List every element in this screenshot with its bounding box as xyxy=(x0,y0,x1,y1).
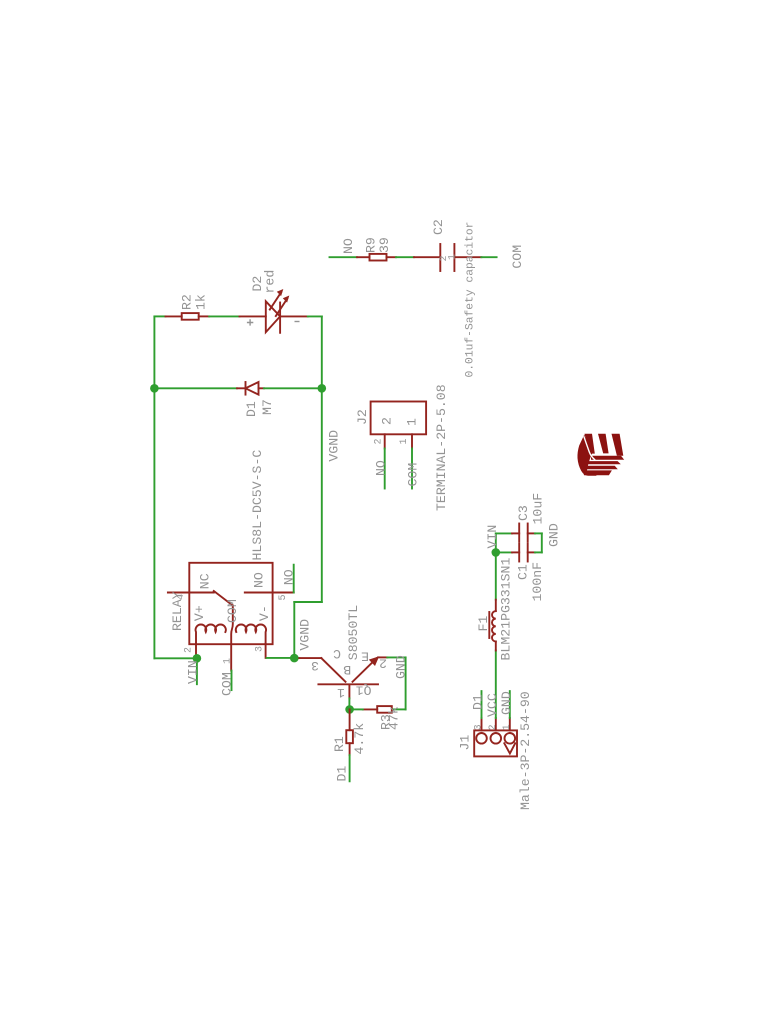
svg-text:D1: D1 xyxy=(471,694,486,710)
svg-text:COM: COM xyxy=(510,245,525,269)
svg-text:1: 1 xyxy=(448,254,459,260)
svg-text:C: C xyxy=(333,646,341,661)
svg-text:VCC: VCC xyxy=(485,693,500,717)
svg-text:2: 2 xyxy=(379,655,387,670)
svg-text:VGND: VGND xyxy=(298,619,313,651)
svg-text:Q1: Q1 xyxy=(356,682,372,697)
svg-text:F1: F1 xyxy=(476,616,491,632)
svg-text:J1: J1 xyxy=(458,735,473,751)
svg-text:1: 1 xyxy=(399,438,410,444)
svg-text:B: B xyxy=(343,662,351,677)
svg-text:S8050TL: S8050TL xyxy=(346,605,361,660)
svg-text:5: 5 xyxy=(278,594,289,600)
svg-text:1: 1 xyxy=(223,658,234,664)
svg-text:BLM21PG331SN1: BLM21PG331SN1 xyxy=(499,558,514,661)
svg-text:VIN: VIN xyxy=(485,525,500,549)
svg-text:100nF: 100nF xyxy=(530,562,545,602)
svg-text:COM: COM xyxy=(220,672,235,696)
svg-text:D1: D1 xyxy=(244,401,259,417)
svg-text:1: 1 xyxy=(405,418,420,426)
svg-text:R1: R1 xyxy=(332,736,347,752)
svg-text:0.01uf-Safety capacitor: 0.01uf-Safety capacitor xyxy=(465,222,477,378)
svg-text:NO: NO xyxy=(341,238,356,254)
svg-text:HLS8L-DC5V-S-C: HLS8L-DC5V-S-C xyxy=(250,450,265,561)
svg-text:COM: COM xyxy=(406,463,421,487)
svg-text:GND: GND xyxy=(547,523,562,547)
svg-text:C1: C1 xyxy=(516,564,531,580)
svg-text:1: 1 xyxy=(502,724,513,730)
svg-text:39: 39 xyxy=(377,237,392,253)
svg-text:4: 4 xyxy=(176,594,187,600)
svg-text:GND: GND xyxy=(394,655,409,679)
svg-text:NO: NO xyxy=(282,569,297,585)
svg-text:red: red xyxy=(263,270,278,294)
svg-text:J2: J2 xyxy=(355,409,370,425)
svg-text:C3: C3 xyxy=(516,505,531,521)
svg-text:V+: V+ xyxy=(192,605,207,621)
svg-text:47k: 47k xyxy=(387,706,402,730)
svg-text:2: 2 xyxy=(488,724,499,730)
svg-text:1: 1 xyxy=(337,685,345,700)
svg-text:D1: D1 xyxy=(335,766,350,782)
svg-text:C2: C2 xyxy=(431,219,446,235)
svg-text:COM: COM xyxy=(225,599,240,623)
svg-text:NC: NC xyxy=(197,573,212,589)
svg-text:R2: R2 xyxy=(180,294,195,310)
svg-text:VGND: VGND xyxy=(327,430,342,462)
svg-text:1k: 1k xyxy=(194,294,209,310)
svg-text:E: E xyxy=(361,649,369,664)
svg-text:NO: NO xyxy=(374,460,389,476)
svg-text:10uF: 10uF xyxy=(531,493,546,525)
svg-text:3: 3 xyxy=(255,646,266,652)
svg-text:3: 3 xyxy=(474,724,485,730)
svg-text:GND: GND xyxy=(499,691,514,715)
svg-text:M7: M7 xyxy=(260,399,275,415)
svg-text:Male-3P-2.54-90: Male-3P-2.54-90 xyxy=(518,691,533,810)
svg-text:2: 2 xyxy=(184,647,195,653)
svg-text:NO: NO xyxy=(252,572,267,588)
svg-text:4.7k: 4.7k xyxy=(352,723,367,755)
svg-text:TERMINAL-2P-5.08: TERMINAL-2P-5.08 xyxy=(434,384,449,511)
svg-text:V-: V- xyxy=(257,605,272,621)
svg-text:VIN: VIN xyxy=(186,660,201,684)
svg-text:3: 3 xyxy=(311,658,319,673)
svg-text:2: 2 xyxy=(374,438,385,444)
svg-text:2: 2 xyxy=(380,417,395,425)
